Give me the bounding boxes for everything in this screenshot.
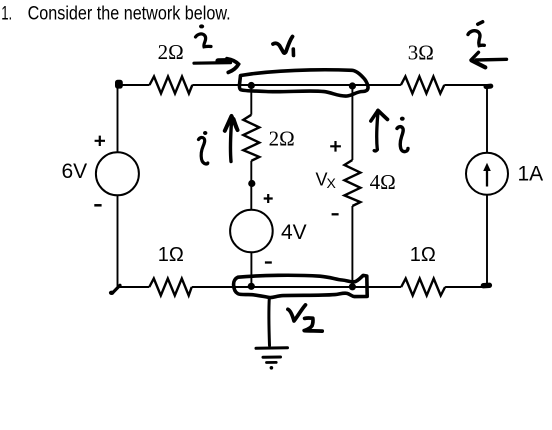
voltage source V 4V [230, 210, 273, 253]
resistor R 2ohm vertical [243, 115, 259, 161]
svg-text:2Ω: 2Ω [158, 40, 184, 64]
resistor R 1ohm bottom-right [401, 279, 445, 296]
handwritten current label i top-right [468, 22, 484, 46]
handwritten node dash bottom-right [483, 283, 489, 289]
ground symbol [256, 298, 288, 370]
title text [1, 3, 230, 25]
svg-text:4V: 4V [281, 221, 307, 244]
junction dot node V1 right [349, 82, 356, 89]
handwritten corner tick bottom-left [109, 285, 120, 295]
svg-text:3Ω: 3Ω [408, 40, 434, 64]
wire left vertical [117, 85, 119, 287]
handwritten label V1 [273, 37, 294, 56]
minus sign Vx [332, 213, 339, 215]
handwritten node dash top-right [486, 84, 491, 90]
current source I 1A [466, 153, 508, 195]
resistor R 1ohm bottom-left [149, 279, 191, 296]
voltage source V 6V [96, 152, 139, 195]
svg-text:4Ω: 4Ω [370, 170, 396, 194]
handwritten arrow up branch2 [371, 111, 388, 151]
plus sign 4V [264, 194, 273, 203]
plus sign 6V [95, 136, 105, 146]
junction dot node V2 left [248, 283, 255, 290]
svg-text:1A: 1A [518, 162, 544, 185]
handwritten arrow up branch1 [225, 116, 238, 162]
svg-text:6V: 6V [62, 160, 88, 183]
minus sign 6V [94, 204, 101, 207]
wire bottom horizontal [118, 286, 488, 288]
handwritten current label i branch2 [397, 117, 408, 152]
svg-text:X: X [327, 175, 337, 191]
svg-text:Consider the network below.: Consider the network below. [28, 3, 231, 25]
handwritten current label i branch1 [199, 131, 208, 164]
svg-text:2Ω: 2Ω [269, 127, 295, 151]
wire top horizontal [118, 84, 488, 86]
junction dot top-left corner [115, 80, 123, 89]
handwritten current label i top-left [196, 24, 212, 46]
wire branch2 vertical (Vx 4ohm) [351, 86, 353, 287]
svg-text:1Ω: 1Ω [158, 244, 184, 266]
resistor R 3ohm top-right [401, 77, 444, 94]
svg-text:1Ω: 1Ω [410, 244, 436, 266]
junction dot node V2 right [349, 283, 356, 290]
wire branch1 vertical (2ohm + 4V) [250, 86, 252, 288]
plus sign Vx [330, 141, 341, 152]
resistor R 4ohm vertical [344, 160, 360, 206]
handwritten loop around node V1 [239, 70, 368, 96]
junction dot node V1 left [248, 82, 255, 89]
svg-text:1.: 1. [1, 3, 12, 25]
node dot below 2ohm [248, 180, 255, 187]
handwritten arrow right (top-left current direction) [194, 59, 239, 73]
handwritten arrow left (top-right current direction) [471, 52, 507, 67]
arrow inside 1A source [486, 168, 488, 187]
wire right vertical [486, 85, 488, 287]
handwritten loop around node V2 [234, 275, 368, 297]
resistor R 2ohm top-left [150, 77, 193, 94]
minus sign 4V [265, 261, 272, 263]
handwritten label V2 [288, 305, 322, 331]
